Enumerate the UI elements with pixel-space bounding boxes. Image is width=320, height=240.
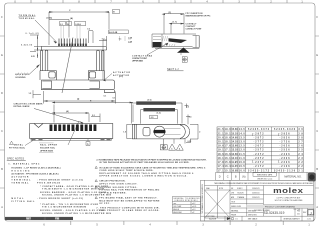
- svg-text:13.10: 13.10: [231, 150, 238, 152]
- svg-text:-2226: -2226: [280, 162, 291, 164]
- svg-text:-2572: -2572: [254, 150, 265, 152]
- svg-text:11.0: 11.0: [239, 158, 246, 160]
- svg-text:0.2: 0.2: [87, 29, 90, 31]
- svg-text:10.5: 10.5: [239, 166, 246, 168]
- svg-text:15.1: 15.1: [225, 170, 232, 172]
- svg-text:D: D: [316, 92, 318, 95]
- svg-text:FITTING NAIL FOR PREVENTION OF: FITTING NAIL FOR PREVENTION OF PEELING: [99, 189, 159, 192]
- svg-text:-2826: -2826: [280, 137, 291, 139]
- svg-text:(A): (A): [66, 110, 69, 113]
- svg-text:15.10: 15.10: [231, 133, 238, 135]
- svg-text:28: 28: [298, 137, 303, 139]
- svg-text:IN CASE OF HAND SOLDERING TAKE: IN CASE OF HAND SOLDERING TAKE CARE OF M…: [99, 166, 206, 169]
- svg-text:1.9: 1.9: [123, 132, 126, 134]
- svg-text:1/1: 1/1: [235, 219, 237, 221]
- svg-text:14.5: 14.5: [239, 128, 246, 131]
- svg-text:0.5 FPC CONN ZIF FOR BOT: 0.5 FPC CONN ZIF FOR BOT: [276, 197, 301, 199]
- svg-text:0.3: 0.3: [60, 24, 63, 26]
- svg-text:1. MATERIAL SPEC: 1. MATERIAL SPEC: [8, 163, 39, 166]
- svg-text:10.0: 10.0: [239, 170, 246, 172]
- svg-text:14.10: 14.10: [231, 141, 238, 144]
- svg-text:FINISH: FINISH: [231, 215, 236, 217]
- svg-text:NOTE: NOTE: [219, 188, 223, 190]
- svg-text:REPLACEMENT OF SOLDER TAILS AN: REPLACEMENT OF SOLDER TAILS AND FITTING …: [99, 172, 194, 175]
- svg-text:FITTING NAIL: FITTING NAIL: [11, 200, 35, 203]
- svg-text:4: 4: [179, 147, 180, 150]
- svg-text:NICKEL BARRIER : GOLD PLATING: NICKEL BARRIER : GOLD PLATING 0.05 OVER: [40, 191, 106, 194]
- svg-text:18.1: 18.1: [218, 158, 225, 160]
- svg-text:20.1: 20.1: [218, 142, 225, 144]
- svg-text:SEE TABLE: SEE TABLE: [248, 218, 258, 221]
- svg-text:21.1: 21.1: [218, 133, 225, 135]
- svg-text:0.25 A: 0.25 A: [75, 23, 81, 26]
- svg-text:DOC TYPE: DOC TYPE: [294, 209, 301, 211]
- svg-text:18:04:02: 18:04:02: [60, 219, 71, 221]
- svg-text:-2772: -2772: [254, 142, 265, 144]
- svg-text:10.95: 10.95: [231, 170, 238, 172]
- svg-text:-2272: -2272: [254, 162, 265, 164]
- svg-text:16.6: 16.6: [225, 154, 232, 156]
- svg-text:4.4±0.1 REEL WIDTH DIR: 4.4±0.1 REEL WIDTH DIR: [137, 103, 175, 105]
- svg-text:2019/05/21: 2019/05/21: [252, 188, 260, 190]
- svg-text:D: D: [1, 92, 3, 95]
- svg-text:19.0: 19.0: [225, 129, 232, 131]
- svg-text:2. IN EMBOSSED TAPE PACKAGE TH: 2. IN EMBOSSED TAPE PACKAGE THE ACTUATOR…: [96, 158, 206, 161]
- svg-text:(A): (A): [70, 17, 73, 20]
- svg-text:13.5: 13.5: [239, 137, 246, 139]
- svg-text:18.1: 18.1: [225, 133, 232, 135]
- svg-text:: PHOS BRONZE SHEET (t=0.15): : PHOS BRONZE SHEET (t=0.15): [37, 197, 83, 200]
- svg-text:HOUSING: HOUSING: [16, 77, 26, 79]
- svg-text:0.05: 0.05: [31, 56, 35, 58]
- svg-text:16.1: 16.1: [225, 158, 232, 160]
- svg-text:ACTUATOR: ACTUATOR: [11, 175, 28, 178]
- svg-text:17.4: 17.4: [218, 165, 225, 168]
- svg-text:UPPER SIDE: UPPER SIDE: [132, 61, 144, 63]
- svg-text:1 of 1: 1 of 1: [307, 219, 312, 221]
- svg-text:0.5: 0.5: [151, 117, 154, 119]
- svg-text:C: C: [1, 130, 3, 133]
- svg-text:HOUSING: HOUSING: [11, 170, 29, 172]
- svg-text:-2172: -2172: [254, 166, 265, 168]
- svg-text:52435-2172: 52435-2172: [248, 169, 270, 172]
- svg-text:-2726: -2726: [280, 142, 291, 144]
- svg-text:0.7: 0.7: [102, 38, 105, 40]
- svg-text:21.5: 21.5: [218, 129, 225, 131]
- svg-text:7. THIS PRODUCT COMPLIES WITH: 7. THIS PRODUCT COMPLIES WITH ROHS DIR.: [96, 207, 159, 209]
- svg-text:30: 30: [298, 129, 303, 131]
- svg-text:2.2: 2.2: [92, 115, 95, 117]
- svg-text:PHOS.BRONZE: PHOS.BRONZE: [37, 183, 61, 185]
- svg-text:-2472: -2472: [254, 153, 265, 156]
- svg-text:-2426: -2426: [280, 153, 291, 156]
- svg-text:SPEC NOTES: SPEC NOTES: [7, 157, 25, 161]
- svg-text:25: 25: [298, 150, 303, 152]
- svg-text:19.1: 19.1: [218, 150, 225, 152]
- svg-text:TERMINAL: TERMINAL: [11, 182, 29, 185]
- svg-text:UPPER SIDE: UPPER SIDE: [40, 151, 54, 153]
- svg-text:29: 29: [298, 133, 303, 135]
- svg-text:OF P.W.B PATTERN.: OF P.W.B PATTERN.: [99, 192, 126, 195]
- svg-text:±0.3: ±0.3: [192, 209, 195, 211]
- svg-text:TIN 1.5 MICROMETER MINIMUM: TIN 1.5 MICROMETER MINIMUM: [42, 207, 86, 209]
- svg-text:D: D: [78, 98, 80, 101]
- svg-text:THIS DRAWING CONTAINS INFORMAT: THIS DRAWING CONTAINS INFORMATION THAT I…: [214, 182, 314, 185]
- svg-text:0.1: 0.1: [119, 39, 122, 41]
- svg-text:OF FPC.: OF FPC.: [99, 203, 110, 205]
- svg-text:FPC BOARD FINAL ASSY OF THE PR: FPC BOARD FINAL ASSY OF THE PRODUCT.: [99, 197, 157, 200]
- svg-text:MILD MUST NOT BE OVERLAPPED TO: MILD MUST NOT BE OVERLAPPED TO PATTERN: [99, 199, 159, 202]
- svg-text:17.1: 17.1: [218, 170, 225, 172]
- svg-text:10.8: 10.8: [239, 162, 246, 164]
- svg-text:52435-3026: 52435-3026: [274, 128, 296, 131]
- svg-text:D: D: [219, 175, 221, 178]
- svg-text:SEE NOTES: SEE NOTES: [248, 215, 257, 217]
- svg-text:12.10: 12.10: [231, 158, 238, 160]
- svg-text:SECT J-J: SECT J-J: [167, 67, 179, 71]
- svg-text:15.60: 15.60: [231, 129, 238, 131]
- svg-text:RELEASE DATE: RELEASE DATE: [29, 218, 44, 221]
- svg-text:DETAIL MARK: DETAIL MARK: [14, 105, 30, 108]
- svg-text:12.5: 12.5: [239, 146, 246, 148]
- svg-text:DOCUMENT STATUS P1: DOCUMENT STATUS P1: [6, 218, 27, 221]
- svg-text:20.6: 20.6: [218, 137, 225, 139]
- svg-text:0.35: 0.35: [188, 141, 192, 143]
- svg-text:CHK: CHK: [231, 193, 234, 195]
- svg-text:14.60: 14.60: [231, 136, 238, 139]
- svg-text:17.8: 17.8: [218, 162, 225, 164]
- svg-text:APPLY FOR OVER CIRCUIT.: APPLY FOR OVER CIRCUIT.: [99, 182, 137, 185]
- svg-text:-2926: -2926: [280, 133, 291, 135]
- svg-text:27: 27: [298, 142, 303, 144]
- svg-text:16.4: 16.4: [225, 165, 232, 168]
- svg-text:CIRCUIT PROTECTION.: CIRCUIT PROTECTION.: [99, 181, 125, 183]
- svg-text:2: 2: [199, 132, 200, 134]
- svg-text:15.8: 15.8: [225, 162, 232, 164]
- svg-text:TERMINAL: TERMINAL: [11, 179, 31, 182]
- svg-text:NICKEL UNDER : GOLD PLATING 0.: NICKEL UNDER : GOLD PLATING 0.05 OVER: [40, 209, 104, 212]
- svg-text:* PLATING : TIN 1.5 MICROMETER: * PLATING : TIN 1.5 MICROMETER OVER: [40, 203, 98, 206]
- svg-text:A4-SIZE: A4-SIZE: [209, 218, 217, 221]
- svg-text:UPPER DIRECTION S/360C LOWER D: UPPER DIRECTION S/360C LOWER DIRECTION S…: [99, 175, 187, 178]
- svg-text:11.45: 11.45: [231, 165, 238, 168]
- svg-text:-2526: -2526: [280, 150, 291, 152]
- svg-text:MATERIAL NO.: MATERIAL NO.: [284, 176, 302, 179]
- svg-text:TERMINAL: TERMINAL: [19, 17, 36, 20]
- svg-text:-2872: -2872: [254, 137, 265, 139]
- svg-text:NICKEL UNDER PLATING 1.0 MICRO: NICKEL UNDER PLATING 1.0 MICROMETER MIN: [42, 212, 111, 215]
- svg-text:-2626: -2626: [280, 146, 291, 148]
- svg-text:EMBOSSED TAPE: EMBOSSED TAPE: [257, 174, 273, 177]
- svg-text:: PHOS BRONZE SHEET (t=0.15): : PHOS BRONZE SHEET (t=0.15): [37, 179, 83, 182]
- svg-text:19.6: 19.6: [218, 146, 225, 148]
- svg-text:0.1: 0.1: [104, 96, 107, 98]
- svg-text:52435-2126: 52435-2126: [274, 169, 296, 172]
- svg-text:ACTUATOR: ACTUATOR: [113, 71, 130, 74]
- svg-text:CIRCUIT NO.1 ROW MARK: CIRCUIT NO.1 ROW MARK: [14, 102, 43, 105]
- svg-text:18.6: 18.6: [225, 137, 232, 139]
- svg-text:17.6: 17.6: [225, 146, 232, 148]
- svg-text:molex: molex: [273, 186, 303, 195]
- svg-text:2019/06/03: 2019/06/03: [46, 219, 57, 221]
- svg-text:PRODUCT CUSTOMER DRAWING: PRODUCT CUSTOMER DRAWING: [265, 205, 296, 208]
- svg-text:-2372: -2372: [254, 158, 265, 160]
- svg-text:-2972: -2972: [254, 133, 265, 135]
- svg-text:DOCUMENT NUMBER: DOCUMENT NUMBER: [254, 210, 270, 212]
- svg-text:IN THE PACKAGE ACTUATOR OF PAR: IN THE PACKAGE ACTUATOR OF PART RELEASED…: [99, 161, 189, 164]
- svg-text:TITLE: TITLE: [231, 202, 235, 204]
- svg-text:C: C: [227, 175, 229, 178]
- svg-text:±0.2: ±0.2: [192, 203, 195, 205]
- svg-text:13.60: 13.60: [231, 146, 238, 148]
- svg-text:CONTACT POINT: CONTACT POINT: [186, 28, 203, 31]
- svg-text:(1.7): (1.7): [173, 22, 177, 24]
- svg-text:* CONTACT AREA : GOLD PLATING: * CONTACT AREA : GOLD PLATING 0.05 MIN O…: [40, 185, 108, 188]
- svg-text:23: 23: [298, 158, 303, 160]
- svg-text:-2672: -2672: [254, 146, 265, 148]
- svg-text:0.08: 0.08: [128, 37, 132, 39]
- svg-text:ANGULAR: ANGULAR: [173, 211, 182, 214]
- svg-text:18.6: 18.6: [218, 154, 225, 156]
- svg-text:TIN-BISMUTH 1.5 MICROMETER MIN: TIN-BISMUTH 1.5 MICROMETER MINIMUM: [42, 189, 104, 191]
- svg-text:5: 5: [171, 148, 172, 150]
- svg-text:18.1: 18.1: [225, 142, 232, 144]
- svg-text:ACTUATOR : PPS RESIN UL94V-0 (: ACTUATOR : PPS RESIN UL94V-0 (BLACK): [11, 173, 58, 176]
- svg-text:(1.2): (1.2): [157, 113, 161, 115]
- svg-text:0.08: 0.08: [128, 41, 132, 43]
- svg-text:2019/05/21: 2019/05/21: [252, 193, 260, 195]
- svg-text:0.4±0.05: 0.4±0.05: [21, 43, 32, 46]
- svg-text:4×0.2 AB: 4×0.2 AB: [109, 31, 118, 34]
- svg-text:0.5: 0.5: [189, 117, 192, 119]
- svg-text:(UNLESS SPECIFIED): (UNLESS SPECIFIED): [174, 200, 197, 202]
- svg-text:001: 001: [297, 214, 300, 216]
- svg-text:(3): (3): [169, 12, 172, 14]
- svg-text:11.95: 11.95: [231, 162, 238, 164]
- svg-text:THIS PRODUCT IS LEAD FREE OF G: THIS PRODUCT IS LEAD FREE OF GOODS.: [99, 209, 159, 212]
- svg-text:2019/05/21: 2019/05/21: [252, 197, 260, 199]
- svg-text:-2126: -2126: [280, 166, 291, 168]
- svg-text:ACTUATOR: ACTUATOR: [113, 74, 129, 77]
- svg-text:COPY FREE: COPY FREE: [206, 216, 215, 218]
- svg-text:12.60: 12.60: [231, 154, 238, 156]
- svg-text:11.5: 11.5: [239, 154, 246, 156]
- svg-text:SOLTOP CONTACTS LEAD FREE: SOLTOP CONTACTS LEAD FREE: [275, 199, 304, 202]
- svg-text:26: 26: [298, 146, 303, 148]
- svg-text:14.0: 14.0: [239, 132, 246, 135]
- svg-text:HOUSING : LCP RESIN UL94V-0 (N: HOUSING : LCP RESIN UL94V-0 (NATURAL): [11, 167, 60, 170]
- svg-text:±3°: ±3°: [192, 212, 195, 214]
- svg-text:C: C: [316, 130, 318, 133]
- svg-text:0.1: 0.1: [113, 97, 116, 99]
- svg-text:FITTING NAIL: FITTING NAIL: [9, 146, 26, 149]
- svg-text:12.0: 12.0: [239, 150, 246, 152]
- svg-text:SERIES 52435: SERIES 52435: [231, 206, 241, 208]
- svg-text:A: A: [87, 142, 89, 146]
- svg-text:GROUND SOLDER FITTING.: GROUND SOLDER FITTING.: [99, 187, 137, 189]
- svg-text:(0.55): (0.55): [47, 18, 53, 20]
- svg-text:(A): (A): [242, 175, 246, 178]
- svg-text:(0.5): (0.5): [148, 100, 152, 102]
- svg-text:13.0: 13.0: [239, 142, 246, 144]
- svg-text:SOLDER TAIL: SOLDER TAIL: [40, 147, 56, 150]
- svg-text:52435-3072: 52435-3072: [248, 128, 270, 131]
- svg-text:HOUSING: HOUSING: [15, 74, 29, 76]
- svg-text:1.5: 1.5: [29, 93, 32, 95]
- svg-text:T.SUZUKI: T.SUZUKI: [237, 193, 244, 195]
- svg-text:COND LESS S/360C TEMP S/360CA: COND LESS S/360C TEMP S/360CA 3HRS.: [99, 169, 153, 172]
- svg-text:21: 21: [298, 170, 303, 172]
- svg-text:S/3 OVER: S/3 OVER: [173, 206, 182, 208]
- svg-text:0.3: 0.3: [186, 107, 189, 109]
- svg-text:METAL: METAL: [14, 143, 24, 146]
- svg-text:±0.25: ±0.25: [192, 206, 196, 208]
- svg-text:INSERTION DEPTH OF FPC: INSERTION DEPTH OF FPC: [186, 15, 212, 17]
- svg-text:-2326: -2326: [280, 158, 291, 160]
- svg-text:ORDER NO. 5-O-4: ORDER NO. 5-O-4: [257, 178, 272, 180]
- svg-text:NAIL UPPER: NAIL UPPER: [40, 144, 57, 147]
- svg-text:ANGLE: ANGLE: [173, 208, 180, 211]
- svg-text:17.1: 17.1: [225, 150, 232, 152]
- svg-text:24: 24: [298, 153, 303, 156]
- svg-text:22: 22: [298, 162, 303, 164]
- svg-text:2.0±0.05 PITCH DIR: 2.0±0.05 PITCH DIR: [145, 110, 175, 112]
- svg-text:22: 22: [298, 166, 303, 168]
- svg-text:J: J: [310, 211, 312, 215]
- svg-text:0.1±0.05: 0.1±0.05: [26, 33, 39, 35]
- svg-text:GENERAL MARKET: GENERAL MARKET: [283, 218, 300, 221]
